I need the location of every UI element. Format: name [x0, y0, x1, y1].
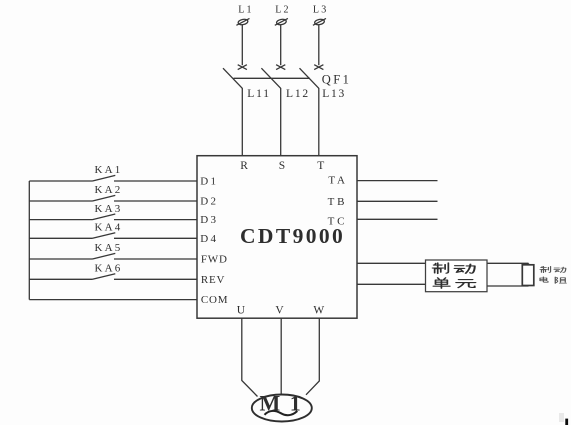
- svg-text:L11: L11: [247, 88, 270, 100]
- svg-text:D3: D3: [200, 214, 218, 226]
- svg-text:L13: L13: [322, 88, 346, 100]
- svg-text:KA1: KA1: [95, 164, 123, 176]
- svg-text:L2: L2: [275, 5, 291, 16]
- svg-text:R: R: [240, 160, 248, 172]
- svg-text:D2: D2: [200, 196, 218, 208]
- svg-text:FWD: FWD: [201, 254, 228, 266]
- svg-text:TA: TA: [328, 174, 347, 186]
- svg-text:D4: D4: [200, 233, 218, 245]
- svg-text:D1: D1: [200, 176, 218, 188]
- svg-text:COM: COM: [201, 294, 228, 306]
- svg-text:TB: TB: [328, 196, 348, 208]
- svg-text:KA6: KA6: [95, 262, 123, 274]
- svg-text:L12: L12: [286, 88, 310, 100]
- svg-text:KA5: KA5: [95, 242, 123, 254]
- svg-text:QF1: QF1: [322, 73, 351, 87]
- svg-text:CDT9000: CDT9000: [240, 224, 345, 248]
- svg-text:L1: L1: [238, 5, 254, 16]
- svg-text:V: V: [275, 304, 284, 316]
- svg-text:U: U: [237, 304, 246, 316]
- svg-text:L3: L3: [313, 5, 329, 16]
- svg-text:T: T: [317, 160, 324, 172]
- svg-text:KA4: KA4: [95, 221, 123, 233]
- svg-text:S: S: [279, 160, 285, 172]
- svg-text:REV: REV: [201, 274, 225, 286]
- svg-text:KA2: KA2: [95, 184, 123, 196]
- svg-text:KA3: KA3: [95, 203, 123, 215]
- svg-text:W: W: [313, 304, 324, 316]
